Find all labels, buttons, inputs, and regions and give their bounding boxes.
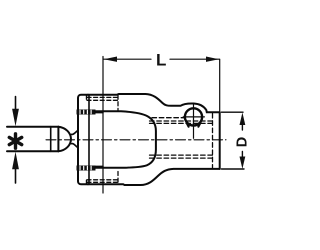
pin lugs xyxy=(187,123,201,127)
hidden lines lower ear xyxy=(87,179,119,181)
pin vertical center line xyxy=(193,103,195,138)
cap lip stubs xyxy=(96,113,104,167)
asterisk xyxy=(9,134,21,148)
fork top silhouette xyxy=(88,94,220,112)
hidden lines upper ear xyxy=(87,96,119,98)
hidden bore end vertical xyxy=(212,114,214,169)
neck top xyxy=(71,130,78,134)
ball end xyxy=(58,127,71,152)
top bearing cap xyxy=(77,110,96,115)
fork bottom silhouette xyxy=(88,169,220,185)
ear parting ticks xyxy=(86,95,88,184)
horizontal center line xyxy=(46,139,226,141)
body right edge xyxy=(219,59,221,112)
svg-text:L: L xyxy=(156,51,166,70)
left ear right edge xyxy=(88,95,90,183)
dimension L right arrowhead xyxy=(206,57,219,62)
hidden bore bottom lines xyxy=(150,154,213,156)
star dimension upper arrow xyxy=(15,97,17,111)
vertical center line through joint (also L extension) xyxy=(102,57,104,194)
shaft end collar xyxy=(57,127,59,152)
neck bottom xyxy=(71,144,78,148)
pin horizontal center line xyxy=(183,116,204,118)
svg-text:D: D xyxy=(235,137,250,147)
hidden boss line xyxy=(152,117,184,119)
hidden bore top lines xyxy=(150,120,213,122)
spline end line xyxy=(50,127,52,152)
dimension D lower arrow xyxy=(240,157,246,169)
dimension D upper arrow xyxy=(240,113,246,126)
star dimension lower arrow xyxy=(15,168,17,183)
shaft top line xyxy=(7,126,58,128)
fork mouth inner profile xyxy=(95,111,156,167)
hidden vertical upper xyxy=(117,95,119,110)
hidden vertical lower xyxy=(117,172,119,185)
dimension L left arrowhead xyxy=(104,57,117,62)
left yoke ear outline xyxy=(78,95,88,185)
dimension D extension lines xyxy=(222,112,245,169)
pin circle xyxy=(185,108,202,125)
shaft bottom line xyxy=(7,150,58,152)
dimension L line xyxy=(104,58,220,60)
bottom bearing cap xyxy=(77,166,96,171)
